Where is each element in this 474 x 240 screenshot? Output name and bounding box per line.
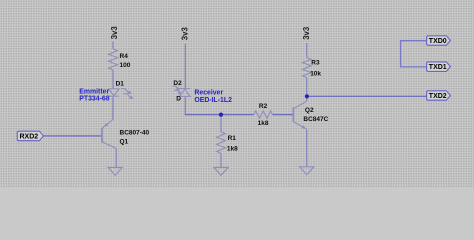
svg-text:Emmitter: Emmitter	[79, 88, 109, 95]
svg-text:R1: R1	[228, 135, 237, 142]
svg-text:Q1: Q1	[120, 138, 129, 145]
svg-text:PT334-68: PT334-68	[79, 96, 109, 103]
svg-text:TXD0: TXD0	[429, 38, 447, 45]
svg-text:TXD1: TXD1	[429, 64, 447, 71]
svg-text:OED-IL-1L2: OED-IL-1L2	[194, 97, 232, 104]
svg-text:BC847C: BC847C	[303, 116, 328, 123]
svg-text:RXD2: RXD2	[20, 133, 39, 140]
svg-text:1k8: 1k8	[258, 120, 269, 127]
svg-text:Q2: Q2	[305, 107, 314, 114]
svg-text:R2: R2	[259, 103, 268, 110]
svg-text:R4: R4	[120, 53, 129, 60]
svg-text:R3: R3	[311, 59, 320, 66]
svg-text:D2: D2	[173, 80, 182, 87]
svg-text:3v3: 3v3	[181, 27, 190, 41]
svg-text:D1: D1	[116, 81, 125, 88]
svg-text:3v3: 3v3	[302, 26, 311, 40]
svg-text:10k: 10k	[310, 70, 321, 77]
svg-text:100: 100	[120, 62, 131, 69]
svg-text:BC807-40: BC807-40	[120, 129, 150, 136]
svg-text:D: D	[176, 96, 181, 103]
svg-text:3v3: 3v3	[110, 26, 119, 40]
svg-text:Receiver: Receiver	[194, 90, 223, 97]
svg-text:1k8: 1k8	[227, 145, 238, 152]
svg-text:TXD2: TXD2	[429, 93, 447, 100]
